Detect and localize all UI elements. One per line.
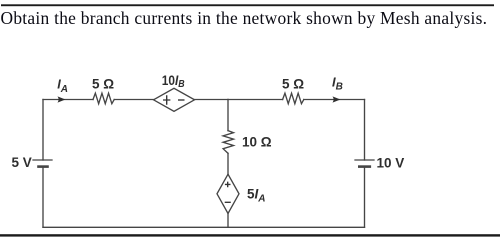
svg-text:Obtain the branch currents in: Obtain the branch currents in the networ… xyxy=(1,8,488,28)
resistor R1 5 ohm xyxy=(93,93,114,104)
resistor R3 10 ohm vertical xyxy=(223,131,233,154)
battery B2 10V long plate xyxy=(355,159,374,161)
wire bottom xyxy=(43,226,365,228)
wire middle between R3 and dependent source xyxy=(227,153,229,174)
battery B1 5V short plate xyxy=(39,165,48,168)
resistor R2 5 ohm xyxy=(283,93,304,104)
wire top-right segment xyxy=(304,99,365,101)
U1 minus sign xyxy=(178,99,185,101)
wire top between dependent source and node N1 xyxy=(195,99,229,101)
top rule xyxy=(1,4,494,6)
wire right branch lower xyxy=(364,167,366,228)
wire left branch lower xyxy=(42,167,44,228)
arrow IA current direction xyxy=(58,96,66,102)
U2 plus sign xyxy=(225,182,231,188)
wire middle branch lower xyxy=(227,214,229,228)
wire top between node N1 and R2 xyxy=(228,99,283,101)
svg-text:5 Ω: 5 Ω xyxy=(282,77,304,92)
bottom rule xyxy=(0,234,500,236)
arrow IB current direction xyxy=(333,96,341,102)
svg-text:10 Ω: 10 Ω xyxy=(242,135,272,150)
wire left branch upper xyxy=(42,100,44,161)
dependent source U2 5IA diamond xyxy=(217,174,239,213)
U1 plus sign xyxy=(163,95,170,105)
dependent source U1 10IB diamond xyxy=(154,88,195,111)
svg-text:5 Ω: 5 Ω xyxy=(92,77,114,92)
U2 minus sign xyxy=(225,201,231,203)
svg-text:10 V: 10 V xyxy=(377,155,405,170)
svg-text:5 V: 5 V xyxy=(12,155,32,170)
wire middle branch upper xyxy=(227,100,229,131)
wire top between R1 and dependent source xyxy=(114,99,153,101)
battery B2 10V short plate xyxy=(359,165,370,168)
wire top-left segment xyxy=(43,99,93,101)
wire right branch upper xyxy=(364,100,366,161)
battery B1 5V long plate xyxy=(33,159,52,161)
label 10IB of dependent source U1 xyxy=(162,72,185,89)
